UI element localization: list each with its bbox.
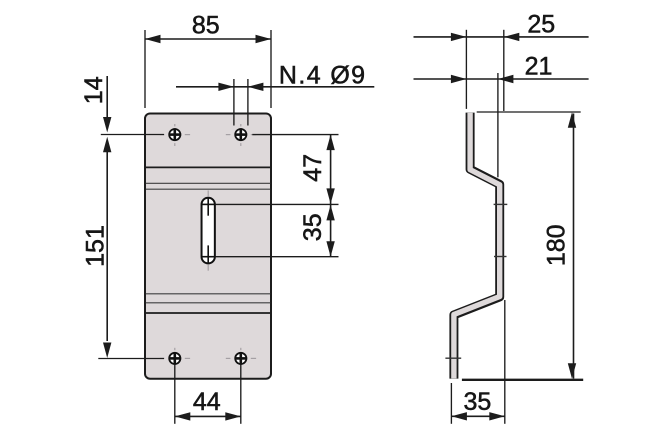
hole top-right xyxy=(226,124,256,146)
side view tick slot bottom xyxy=(494,256,507,258)
dimension N.4 Ø9 xyxy=(176,62,374,126)
dimension 44 xyxy=(175,365,241,424)
slot (obround) xyxy=(201,190,215,270)
dimension 35 (side) xyxy=(451,300,504,424)
svg-text:151: 151 xyxy=(81,225,109,267)
svg-text:47: 47 xyxy=(299,154,327,182)
bend edge line top (dark) xyxy=(146,166,270,168)
dimension 151 xyxy=(81,137,164,359)
bend tangent line xyxy=(146,182,270,184)
svg-text:35: 35 xyxy=(463,388,491,416)
svg-text:85: 85 xyxy=(192,11,220,39)
hole bottom-left xyxy=(160,348,190,370)
svg-text:44: 44 xyxy=(193,388,221,416)
dimension 85 xyxy=(145,11,271,108)
bend tangent line xyxy=(146,302,270,304)
bend tangent line xyxy=(146,293,270,295)
front view plate xyxy=(145,114,271,379)
svg-text:14: 14 xyxy=(80,76,108,104)
hole top-left xyxy=(160,124,190,146)
svg-text:N.4 Ø9: N.4 Ø9 xyxy=(279,62,367,90)
hole bottom-right xyxy=(226,348,256,370)
bend edge line bottom (dark) xyxy=(146,312,270,314)
bend tangent line xyxy=(146,188,270,190)
side view tick slot top xyxy=(494,203,508,205)
dimension 180 xyxy=(462,112,583,380)
side view tick hole bottom xyxy=(445,357,461,359)
svg-text:180: 180 xyxy=(543,224,571,266)
svg-text:21: 21 xyxy=(525,52,553,80)
svg-text:35: 35 xyxy=(299,213,327,241)
dimension 47 xyxy=(216,135,339,257)
dimension 21 xyxy=(414,52,589,177)
side view Z-profile xyxy=(454,113,500,379)
svg-text:25: 25 xyxy=(527,11,555,39)
dimension 14 xyxy=(80,76,164,135)
dimension 35 (slot) xyxy=(216,205,339,257)
dimension 25 xyxy=(414,11,589,112)
